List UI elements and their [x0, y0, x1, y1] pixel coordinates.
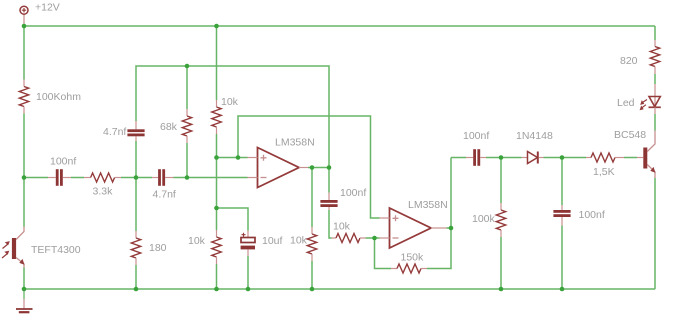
op-amp U2 LM358N [390, 199, 448, 248]
op-amp U2 pins [380, 218, 447, 238]
wire signal row segment b [71, 177, 84, 179]
wire detector row a [451, 157, 466, 159]
svg-text:180: 180 [149, 242, 167, 254]
supply +12V symbol [20, 2, 60, 27]
wire 10k load branch [311, 168, 313, 228]
capacitor 100nf base [553, 205, 604, 226]
node rail 180 [134, 287, 139, 292]
svg-text:+12V: +12V [35, 2, 60, 14]
capacitor 100nf coupling [463, 130, 489, 166]
wire op2 output [447, 227, 452, 229]
svg-text:10k: 10k [188, 235, 206, 247]
node rail 10uf [246, 287, 251, 292]
wire 100nf3 branch [561, 158, 563, 206]
node rail left [22, 287, 27, 292]
wire 10k divider top [216, 26, 218, 100]
svg-text:10k: 10k [290, 235, 308, 247]
svg-text:1N4148: 1N4148 [516, 130, 553, 142]
wire left branch lower [23, 268, 25, 290]
node signal input [22, 175, 27, 180]
wire signal row segment a [24, 177, 48, 179]
svg-text:Led: Led [617, 97, 635, 109]
wire 68k branch top [186, 66, 188, 109]
svg-text:LM358N: LM358N [275, 137, 315, 149]
svg-text:4.7nf: 4.7nf [153, 189, 176, 201]
node op2 output [449, 226, 454, 231]
wire feedback to output [427, 158, 451, 269]
svg-text:3.3k: 3.3k [93, 186, 114, 198]
wire signal row segment c [121, 177, 152, 179]
svg-text:1,5K: 1,5K [593, 166, 615, 178]
ground symbol [16, 289, 33, 312]
wire detector row b [486, 157, 522, 159]
wire bottom ground rail [24, 288, 655, 290]
node feedback top [185, 64, 190, 69]
node op1 out b [327, 165, 332, 170]
svg-text:100nf: 100nf [50, 156, 76, 168]
wire 68k branch bottom [186, 143, 188, 178]
capacitor 10uf electrolytic [241, 231, 283, 257]
resistor 3.3k [84, 173, 121, 198]
wire signal row segment d [174, 177, 248, 179]
svg-text:LM358N: LM358N [408, 199, 448, 211]
svg-text:68k: 68k [160, 121, 178, 133]
op-amp U1 LM358N [258, 137, 315, 188]
resistor 10k top [212, 96, 239, 134]
svg-text:10k: 10k [333, 221, 351, 233]
wire top +12V rail [24, 25, 655, 27]
node op2 feed tap [236, 155, 241, 160]
capacitor 100nf highpass [320, 187, 366, 210]
svg-text:100Kohm: 100Kohm [36, 91, 81, 103]
wire op2 plus feed vertical from op1 [238, 116, 380, 218]
node op1 plus bias [214, 155, 219, 160]
wire 820 to led [654, 74, 656, 84]
node divider top rail tap [214, 24, 219, 29]
wire 10k divider bottom [216, 264, 218, 289]
svg-text:BC548: BC548 [614, 129, 646, 141]
wire 10uf to rail [247, 256, 249, 289]
svg-text:TEFT4300: TEFT4300 [31, 244, 81, 256]
svg-text:100nf: 100nf [463, 130, 489, 142]
wire feedback top line y66 [136, 66, 329, 168]
node 180/4.7nf junction [134, 175, 139, 180]
resistor 100Kohm [19, 80, 81, 114]
node 100nf base tap [560, 155, 565, 160]
resistor 10k load [290, 227, 317, 261]
wire 10k load to rail [311, 261, 313, 289]
wire emitter to rail [654, 178, 656, 289]
wire op2 minus input [366, 237, 380, 239]
svg-text:820: 820 [620, 55, 638, 67]
wire base segment [624, 157, 637, 159]
node 68k/signal junction [185, 175, 190, 180]
wire 100k branch [500, 158, 502, 204]
wire hp filter cap lower [329, 210, 332, 238]
capacitor 4.7nf series [152, 169, 176, 200]
wire op1 output [308, 167, 329, 169]
node rail 100nf [560, 287, 565, 292]
node rail 10k [214, 287, 219, 292]
node top-left corner [22, 24, 27, 29]
wire 180 branch [135, 178, 137, 232]
wire detector row c [544, 157, 563, 159]
capacitor 4.7nf feedback [103, 121, 145, 141]
svg-text:100nf: 100nf [340, 187, 366, 199]
wire hp filter cap upper [328, 168, 330, 193]
resistor 1.5K [586, 153, 624, 178]
wire led to transistor [654, 114, 656, 131]
wire 10uf branch [217, 208, 249, 231]
node op2 minus [372, 236, 377, 241]
wire 4.7nf cap1 lower [135, 141, 137, 178]
transistor BC548 [614, 129, 656, 178]
wire right branch top [654, 26, 656, 40]
node rail 100k [499, 287, 504, 292]
svg-text:10k: 10k [221, 96, 239, 108]
wire 100k to rail [500, 237, 502, 289]
resistor 10k series [332, 221, 366, 243]
diode 1N4148 [516, 130, 553, 164]
wire 100nf3 to rail [561, 226, 563, 290]
svg-text:4.7nf: 4.7nf [103, 126, 126, 138]
resistor 150k feedback [391, 252, 427, 274]
phototransistor TEFT4300 [2, 227, 81, 268]
wire op1 plus input [217, 157, 248, 159]
LED Led [617, 84, 661, 114]
node rail 10k load [310, 287, 315, 292]
resistor 100k [472, 203, 506, 237]
wire 10k divider mid [216, 134, 218, 230]
node bias lower [214, 206, 219, 211]
svg-text:100nf: 100nf [579, 209, 605, 221]
resistor 180 [131, 231, 166, 265]
capacitor 100nf input [48, 156, 76, 186]
wire left branch upper [23, 26, 25, 80]
node op1 out a [310, 165, 315, 170]
wire left branch mid [23, 114, 25, 227]
svg-text:100k: 100k [472, 213, 496, 225]
resistor 820 [620, 40, 660, 74]
svg-text:150k: 150k [401, 252, 425, 264]
wire op2 feedback loop [375, 238, 392, 269]
resistor 68k [160, 109, 192, 143]
wire detector row d [562, 157, 586, 159]
op-amp U1 pins [248, 158, 309, 178]
resistor 10k lower [188, 230, 221, 264]
node 100k tap [499, 155, 504, 160]
wire 180 to rail [135, 265, 137, 289]
svg-text:10uf: 10uf [262, 235, 283, 247]
